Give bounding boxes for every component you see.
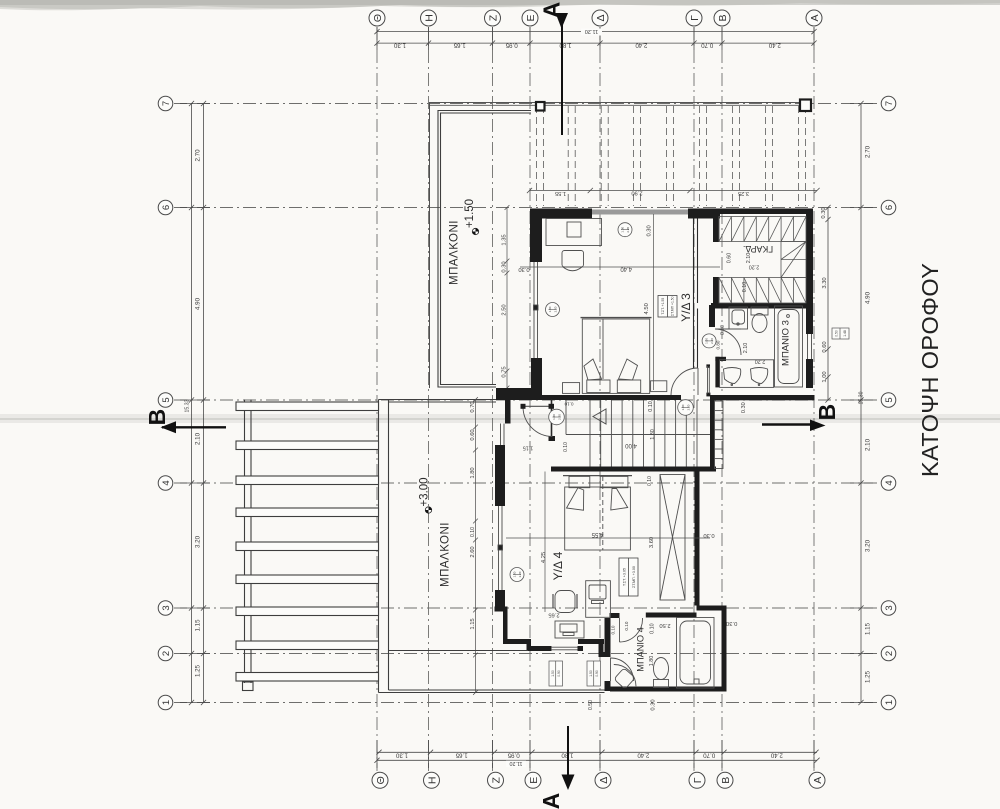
svg-text:ΓΚΑΡΔ.: ΓΚΑΡΔ. [743, 244, 773, 254]
svg-text:1.25: 1.25 [195, 664, 202, 677]
svg-text:1.65: 1.65 [455, 752, 468, 759]
svg-text:2.50: 2.50 [659, 622, 670, 628]
svg-text:0.60: 0.60 [726, 253, 732, 264]
svg-text:Ε: Ε [528, 777, 540, 784]
svg-text:0.70: 0.70 [703, 752, 716, 759]
svg-text:2.50: 2.50 [502, 304, 508, 315]
svg-text:0.50: 0.50 [835, 330, 839, 337]
svg-text:2.60: 2.60 [470, 546, 476, 557]
svg-text:A: A [538, 2, 564, 19]
svg-text:0.10: 0.10 [647, 476, 653, 486]
svg-text:2.20: 2.20 [710, 338, 714, 344]
svg-text:2.40: 2.40 [635, 42, 648, 49]
svg-text:A: A [538, 793, 564, 809]
svg-text:+3.00: +3.00 [419, 477, 431, 506]
svg-text:0.30: 0.30 [741, 402, 747, 413]
svg-text:3.25: 3.25 [738, 190, 749, 196]
svg-text:1: 1 [161, 700, 172, 705]
svg-text:1.00: 1.00 [548, 306, 552, 312]
svg-text:ΜΠΑΝΙΟ 3: ΜΠΑΝΙΟ 3 [780, 320, 791, 366]
svg-text:Τ.ΣΤ. +1.55: Τ.ΣΤ. +1.55 [661, 298, 665, 315]
svg-text:+1.50: +1.50 [464, 199, 476, 228]
svg-text:0.10: 0.10 [649, 623, 655, 634]
svg-text:2.40: 2.40 [637, 752, 650, 759]
svg-text:5: 5 [161, 397, 172, 402]
svg-text:0.10: 0.10 [563, 442, 569, 452]
svg-text:Δ: Δ [595, 14, 607, 21]
svg-text:15.30: 15.30 [858, 391, 864, 404]
svg-text:Α: Α [809, 14, 821, 21]
svg-text:1.80: 1.80 [559, 42, 572, 49]
svg-text:4.90: 4.90 [865, 291, 872, 304]
svg-text:Υ/Δ 3: Υ/Δ 3 [679, 293, 693, 322]
svg-text:0.10: 0.10 [624, 621, 629, 630]
svg-text:ΜΠΑΝΙΟ 4: ΜΠΑΝΙΟ 4 [635, 627, 645, 671]
svg-text:2: 2 [884, 651, 895, 656]
svg-text:ΣΤ.ΜΠ. +3.00: ΣΤ.ΜΠ. +3.00 [632, 566, 636, 588]
svg-text:1.50: 1.50 [551, 670, 555, 677]
svg-text:1.15: 1.15 [865, 622, 872, 635]
svg-text:Τ.ΣΤ. +3.05: Τ.ΣΤ. +3.05 [622, 568, 626, 586]
svg-text:2.20: 2.20 [553, 306, 557, 312]
svg-text:0.10: 0.10 [611, 625, 616, 634]
svg-text:5: 5 [884, 397, 895, 402]
svg-text:4.40: 4.40 [620, 266, 632, 272]
svg-text:1.00: 1.00 [705, 338, 709, 344]
svg-text:4.55: 4.55 [591, 531, 603, 537]
svg-text:1.00: 1.00 [681, 404, 685, 410]
svg-text:Γ: Γ [692, 777, 704, 783]
svg-text:Θ: Θ [375, 776, 387, 784]
svg-text:ΣΤ.ΜΠ +1.50: ΣΤ.ΜΠ +1.50 [671, 296, 675, 316]
svg-text:0.60: 0.60 [470, 429, 476, 440]
svg-text:Η: Η [423, 14, 435, 22]
svg-text:Ε: Ε [525, 14, 537, 21]
svg-text:1.30: 1.30 [393, 42, 406, 49]
svg-text:2.40: 2.40 [770, 752, 783, 759]
svg-text:ΜΠΑΛΚΟΝΙ: ΜΠΑΛΚΟΝΙ [440, 522, 452, 587]
svg-text:3: 3 [161, 605, 172, 610]
svg-text:0.10: 0.10 [648, 401, 654, 412]
svg-text:0.75: 0.75 [502, 366, 508, 377]
svg-text:2.20: 2.20 [686, 404, 690, 410]
svg-text:1.80: 1.80 [470, 467, 476, 478]
svg-text:2.70: 2.70 [195, 149, 202, 162]
svg-text:0.10: 0.10 [470, 527, 476, 537]
svg-text:4.50: 4.50 [644, 303, 650, 314]
svg-text:0.90: 0.90 [557, 670, 561, 677]
svg-text:ΜΠΑΛΚΟΝΙ: ΜΠΑΛΚΟΝΙ [449, 220, 461, 285]
svg-text:3.20: 3.20 [865, 539, 872, 552]
svg-text:1.80: 1.80 [650, 429, 656, 440]
svg-text:3.60: 3.60 [649, 537, 655, 548]
svg-text:1: 1 [884, 700, 895, 705]
svg-text:Ζ: Ζ [490, 777, 502, 784]
svg-text:1.15: 1.15 [470, 618, 476, 629]
svg-text:7: 7 [161, 101, 172, 106]
svg-text:0.90: 0.90 [595, 670, 599, 677]
svg-text:0.95: 0.95 [507, 752, 520, 759]
svg-text:0.70: 0.70 [470, 401, 476, 412]
svg-text:0.10: 0.10 [742, 282, 748, 293]
svg-text:2.20: 2.20 [518, 571, 522, 577]
svg-text:Α: Α [812, 777, 824, 784]
svg-text:0.95: 0.95 [505, 42, 518, 49]
svg-text:7: 7 [884, 101, 895, 106]
svg-text:1.50: 1.50 [589, 670, 593, 677]
svg-text:0.30: 0.30 [650, 699, 656, 710]
svg-text:2.20: 2.20 [626, 226, 630, 232]
svg-text:3.20: 3.20 [195, 535, 202, 548]
svg-text:Ζ: Ζ [487, 14, 499, 21]
svg-text:1.15: 1.15 [523, 445, 534, 451]
svg-text:1.80: 1.80 [649, 656, 655, 667]
svg-text:3.30: 3.30 [822, 277, 828, 288]
svg-text:0.50: 0.50 [588, 700, 594, 710]
svg-text:1.48: 1.48 [843, 330, 847, 337]
svg-text:1.35: 1.35 [502, 234, 508, 245]
svg-text:2.10: 2.10 [746, 253, 752, 264]
svg-text:2.90: 2.90 [631, 189, 642, 195]
svg-text:4.00: 4.00 [625, 442, 637, 448]
svg-text:0.60: 0.60 [822, 341, 828, 352]
svg-text:4.90: 4.90 [195, 297, 202, 310]
svg-text:11.20: 11.20 [585, 28, 599, 34]
svg-text:1.25: 1.25 [865, 670, 872, 683]
svg-text:2.10: 2.10 [195, 432, 202, 445]
svg-text:1.65: 1.65 [453, 42, 466, 49]
svg-text:1.30: 1.30 [395, 752, 408, 759]
svg-text:4: 4 [161, 480, 172, 485]
svg-text:1.15: 1.15 [195, 619, 202, 632]
svg-text:0.80: 0.80 [716, 340, 721, 349]
svg-text:1.00: 1.00 [512, 571, 516, 577]
svg-text:2.10: 2.10 [743, 343, 749, 354]
svg-text:B: B [814, 404, 840, 421]
svg-text:4.25: 4.25 [541, 552, 547, 563]
svg-text:Β: Β [720, 777, 732, 784]
svg-text:2.20: 2.20 [749, 264, 760, 270]
svg-text:Β: Β [717, 14, 729, 21]
svg-text:1.55: 1.55 [555, 190, 566, 196]
svg-text:ΚΑΤΟΨΗ ΟΡΟΦΟΥ: ΚΑΤΟΨΗ ΟΡΟΦΟΥ [917, 263, 943, 477]
svg-text:6: 6 [884, 205, 895, 210]
svg-text:6: 6 [161, 205, 172, 210]
svg-text:11.20: 11.20 [509, 760, 522, 766]
svg-text:0.30: 0.30 [703, 532, 714, 538]
svg-text:Θ: Θ [372, 14, 384, 22]
svg-text:1.00: 1.00 [822, 371, 828, 382]
svg-text:0.30: 0.30 [726, 620, 737, 626]
svg-text:3: 3 [884, 605, 895, 610]
svg-text:2.20: 2.20 [557, 414, 561, 420]
svg-text:15.33: 15.33 [184, 399, 190, 412]
svg-text:0.30: 0.30 [647, 225, 653, 236]
svg-text:Γ: Γ [689, 15, 701, 21]
svg-text:4: 4 [884, 480, 895, 485]
svg-text:2.70: 2.70 [865, 145, 872, 158]
svg-text:0.10: 0.10 [564, 401, 573, 406]
svg-text:B: B [144, 409, 170, 426]
svg-text:0.30: 0.30 [821, 207, 827, 218]
svg-text:2.65: 2.65 [548, 612, 559, 618]
svg-text:Η: Η [426, 777, 438, 785]
svg-text:0.70: 0.70 [701, 42, 714, 49]
svg-text:2.40: 2.40 [768, 42, 781, 49]
svg-text:Υ/Δ 4: Υ/Δ 4 [551, 551, 565, 580]
svg-text:1.00: 1.00 [552, 414, 556, 420]
svg-text:Δ: Δ [598, 777, 610, 784]
svg-text:0.30: 0.30 [502, 261, 508, 272]
svg-text:2.10: 2.10 [865, 438, 872, 451]
svg-text:1.00: 1.00 [620, 226, 624, 232]
svg-text:2.20: 2.20 [755, 358, 766, 364]
svg-text:2: 2 [161, 651, 172, 656]
